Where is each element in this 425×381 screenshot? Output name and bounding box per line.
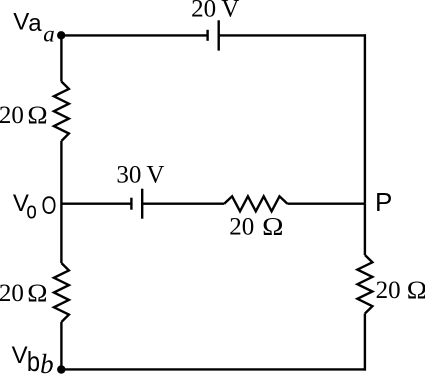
wire left rail upper (a to R1) — [60, 35, 62, 81]
node a junction dot — [57, 31, 65, 39]
svg-text:O: O — [42, 191, 57, 219]
wire right rail lower (R4 to bottom-right corner) — [364, 314, 366, 371]
svg-text:V: V — [13, 9, 29, 36]
wire middle-left horizontal (O to battery) — [61, 202, 131, 204]
resistor R3 20ohm middle — [224, 196, 287, 211]
wire left rail middle (R1 to node O) — [60, 141, 62, 263]
wire top-right horizontal (battery to top-right corner) — [219, 34, 366, 36]
svg-text:20: 20 — [0, 102, 24, 129]
svg-text:a: a — [43, 22, 55, 47]
svg-text:V: V — [221, 0, 239, 22]
svg-text:Ω: Ω — [407, 276, 425, 304]
wire bottom horizontal (b to bottom-right corner) — [61, 368, 366, 370]
wire left rail lower (R2 to node b) — [60, 322, 62, 369]
wire top-left horizontal (a to battery) — [61, 34, 207, 36]
node b junction dot — [57, 365, 65, 373]
wire right rail middle (P to R4) — [364, 204, 366, 255]
svg-text:Ω: Ω — [27, 279, 47, 307]
wire middle-right horizontal (R3 to node P) — [287, 202, 365, 204]
svg-text:o: o — [26, 197, 36, 224]
battery B2 30V long plate — [141, 189, 143, 219]
svg-text:30: 30 — [116, 161, 141, 188]
wire right rail upper (top-right corner to P) — [364, 34, 366, 204]
battery B1 20V long plate — [217, 20, 219, 50]
svg-text:20: 20 — [376, 277, 401, 304]
svg-text:20: 20 — [229, 214, 254, 241]
battery B2 30V short plate — [130, 198, 132, 210]
svg-text:Ω: Ω — [262, 212, 283, 240]
svg-text:a: a — [28, 10, 42, 37]
svg-text:20: 20 — [0, 280, 24, 307]
svg-text:Ω: Ω — [27, 101, 47, 129]
svg-text:20: 20 — [191, 0, 216, 22]
svg-text:V: V — [146, 161, 164, 188]
resistor R4 20ohm right — [357, 255, 372, 314]
svg-text:b: b — [40, 349, 54, 376]
svg-text:P: P — [375, 187, 392, 217]
wire middle horizontal (battery to R3) — [142, 202, 224, 204]
resistor R2 20ohm left-bottom — [54, 263, 69, 322]
svg-text:V: V — [12, 342, 28, 369]
resistor R1 20ohm left-top — [54, 82, 69, 142]
battery B1 20V short plate — [206, 30, 208, 41]
svg-text:b: b — [27, 347, 40, 376]
